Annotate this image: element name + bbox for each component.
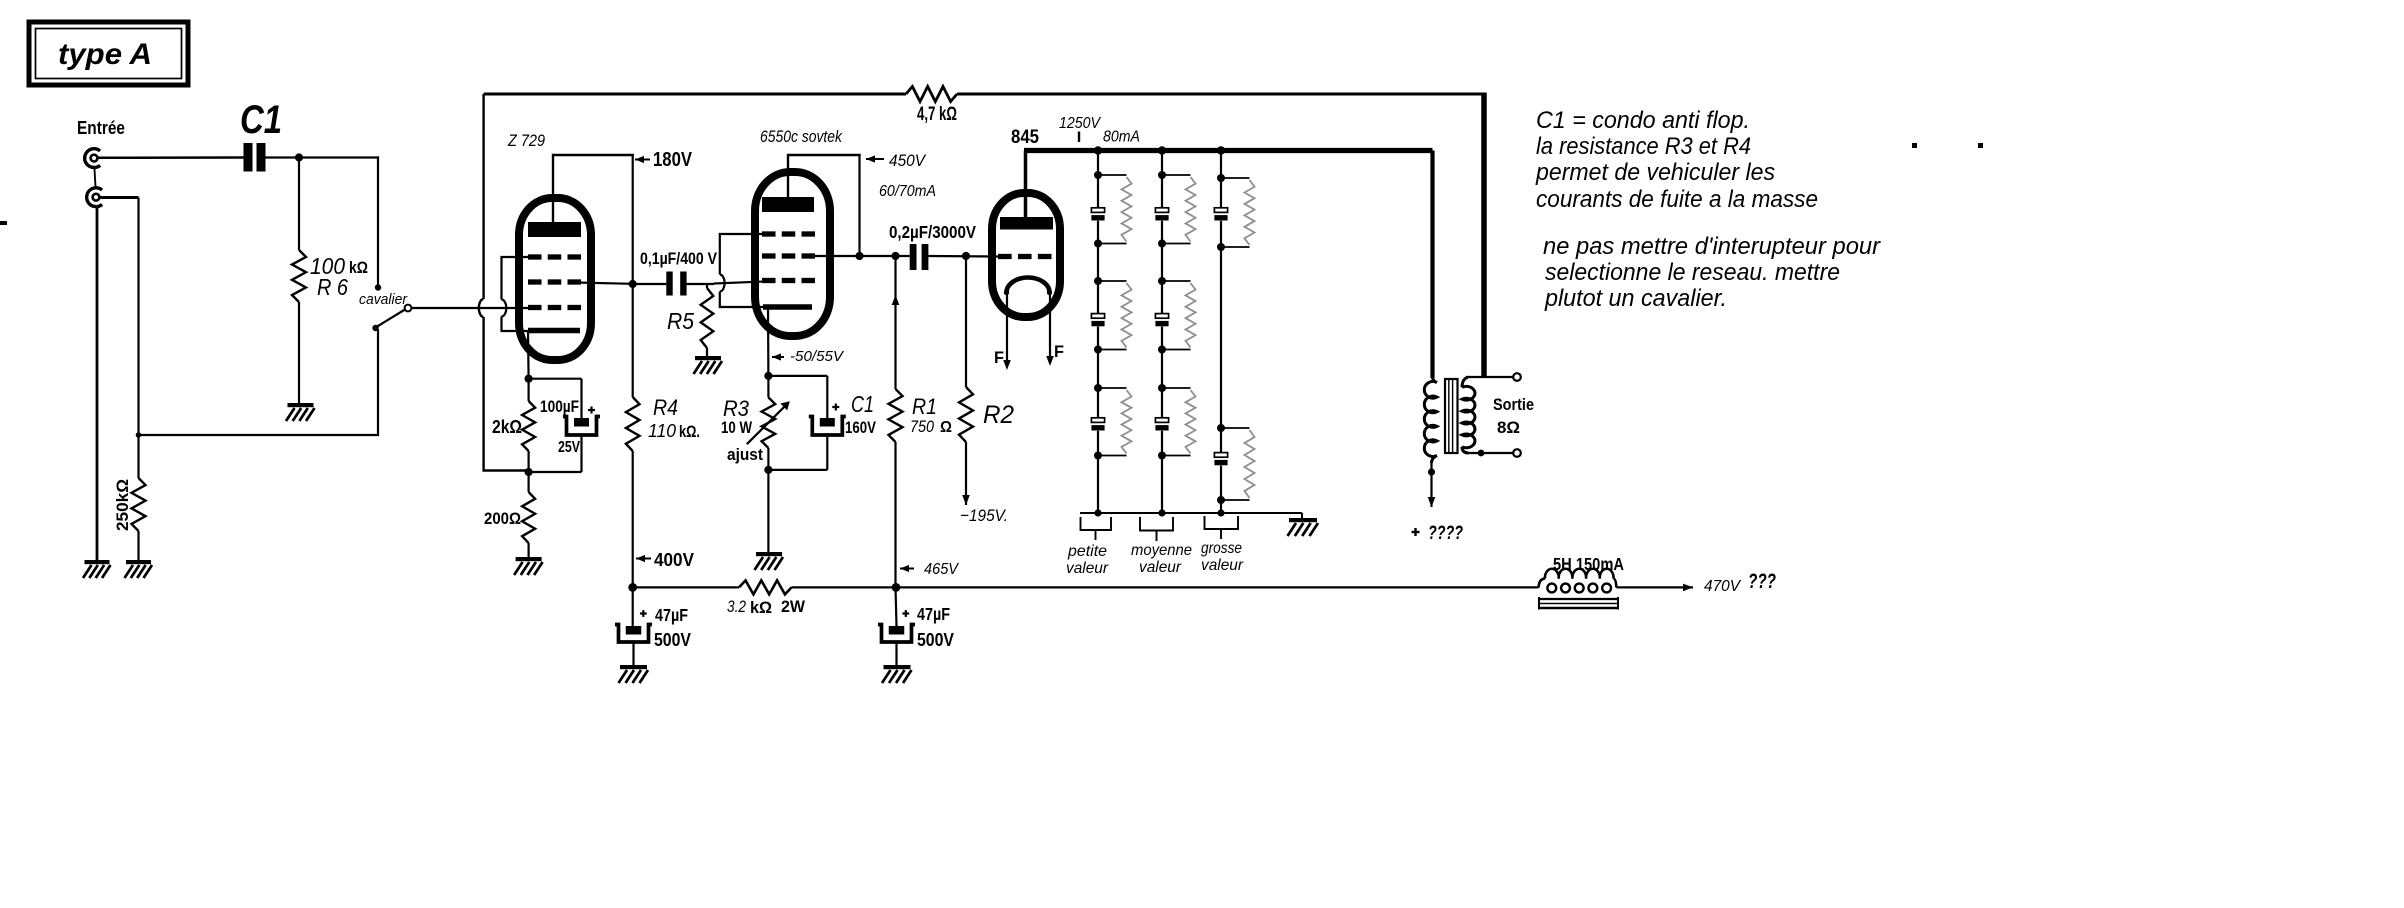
wire bank bottom bus	[1080, 512, 1302, 514]
label kOhm of R6	[349, 258, 368, 277]
wire 1250V rail drop to transformer	[1430, 151, 1434, 379]
resistor 200 Ohm	[522, 472, 535, 557]
node switch lower contact	[372, 325, 378, 331]
label 465V	[924, 561, 959, 578]
wire 100uF box top	[529, 378, 582, 380]
wire J1 to C1	[97, 156, 243, 159]
label Sortie	[1493, 395, 1534, 414]
svg-text:450V: 450V	[889, 151, 927, 170]
wire feedback top line right	[957, 93, 1486, 96]
svg-text:-50/55V: -50/55V	[790, 348, 845, 365]
label 500V no1	[654, 629, 692, 650]
label -50/55V	[790, 348, 845, 365]
wire V2 cathode down	[767, 309, 770, 376]
label ajust	[727, 445, 763, 464]
node bottom loop junction	[136, 432, 142, 438]
label 500V no2	[917, 629, 955, 650]
svg-text:C1: C1	[851, 391, 874, 417]
capacitor 47uF 500V no2	[878, 625, 915, 643]
label arrow 180V	[635, 156, 650, 163]
label plus of 100uF	[588, 407, 595, 414]
wire 47uF no1 to ground	[632, 642, 634, 665]
svg-text:Entrée: Entrée	[77, 118, 125, 138]
svg-text:500V: 500V	[654, 629, 692, 650]
V1 anode plate	[528, 222, 581, 237]
label 6550c sovtek	[760, 128, 843, 146]
label C1 cathode cap	[851, 391, 874, 417]
node bus col1	[1094, 509, 1101, 516]
label arrow 465V	[900, 565, 914, 572]
label petite valeur	[1066, 543, 1109, 577]
resistor 3.2k 2W	[739, 580, 792, 594]
switch pivot circle	[405, 305, 412, 312]
svg-text:Ω: Ω	[940, 419, 952, 436]
svg-text:moyenne: moyenne	[1131, 542, 1192, 559]
wire 100uF box right lower	[580, 435, 582, 472]
resistor 2k cathode	[522, 379, 535, 472]
capacitor C1 160V	[809, 417, 846, 436]
label ???? supply	[1428, 523, 1463, 544]
wire V1 anode up and right	[553, 155, 634, 223]
wire V3 anode up	[1024, 151, 1028, 219]
wire R3 to ground	[767, 470, 769, 552]
label 60/70mA	[879, 183, 936, 200]
tube V1 Z729 envelope	[519, 198, 591, 360]
label Ohm of R1	[940, 419, 952, 436]
label 1250V	[1059, 115, 1101, 132]
wire feedback rail left	[479, 94, 529, 471]
label 400V	[654, 550, 694, 570]
node bus col2	[1158, 509, 1165, 516]
wire output node to 0.1uF	[633, 283, 667, 285]
inductor 5H choke	[1539, 569, 1617, 593]
wire R6 to ground	[298, 302, 300, 403]
tube V3 845 envelope	[992, 193, 1060, 317]
capacitor bank col1 (3 RC cells)	[1091, 151, 1131, 514]
svg-text:valeur: valeur	[1139, 559, 1182, 576]
wire 100uF box bottom	[529, 471, 582, 473]
wire R3 box bottom	[768, 469, 827, 471]
label cavalier	[359, 291, 408, 308]
bracket grosse valeur	[1205, 516, 1239, 539]
label 8 Ohm	[1497, 418, 1520, 437]
label 160V	[845, 418, 877, 437]
label plus of 47uF no2	[902, 610, 909, 617]
wire V2 screen to 0.2uF	[815, 255, 910, 257]
wire 100uF box right upper	[580, 379, 582, 418]
label arrow -50/55V	[772, 353, 784, 360]
V1 g3-cathode strap	[502, 257, 531, 331]
terminal sortie plus	[1513, 373, 1521, 381]
transformer core	[1445, 379, 1458, 453]
resistor 250k	[132, 478, 146, 531]
wire corner down to switch	[377, 156, 379, 288]
label R 6	[317, 274, 348, 300]
label R5	[667, 308, 694, 334]
node rail col3	[1217, 146, 1225, 154]
V2 grid g2 row	[762, 253, 815, 258]
resistor R1 750	[889, 256, 903, 587]
terminal sortie minus	[1513, 449, 1521, 457]
handwritten note block	[1535, 107, 1881, 312]
V3 anode plate	[1000, 217, 1053, 230]
tube V2 6550 envelope	[755, 172, 830, 336]
label 100	[310, 253, 345, 279]
wire secondary top to terminal	[1466, 376, 1513, 378]
bracket moyenne valeur	[1140, 517, 1173, 541]
svg-text:plutot un cavalier.: plutot un cavalier.	[1544, 285, 1727, 312]
svg-text:60/70mA: 60/70mA	[879, 183, 936, 200]
resistor R3 rheostat	[762, 376, 776, 470]
ground under R3	[755, 552, 784, 570]
wire feedback top line left	[484, 93, 906, 96]
label 4,7 kOhm	[917, 104, 957, 125]
V3 filament node left	[1004, 290, 1009, 295]
label kOhm of R4	[679, 422, 700, 441]
title box frame	[29, 22, 188, 85]
node V1 cathode junction	[525, 375, 533, 383]
ground under 200 Ohm	[514, 557, 543, 575]
node C1/R6 junction	[295, 153, 303, 161]
node bus col3	[1217, 509, 1224, 516]
label Entree	[77, 118, 125, 138]
label Z 729	[507, 132, 545, 150]
svg-text:F: F	[994, 348, 1004, 367]
label 10W	[721, 418, 753, 437]
label R2	[983, 401, 1014, 429]
label 5H 150mA	[1553, 554, 1624, 574]
stray dash left edge	[0, 221, 7, 225]
label 250kOhm	[113, 479, 132, 531]
wire feedback drop to transformer	[1481, 93, 1487, 378]
label 200Ohm	[484, 509, 521, 528]
svg-text:110: 110	[648, 421, 676, 441]
capacitor bank col2 (3 RC cells)	[1155, 151, 1195, 514]
capacitor 0.1uF/400V	[666, 272, 686, 296]
R3 rheostat arrow	[747, 401, 790, 444]
label 845	[1011, 127, 1039, 148]
ground under R5	[694, 356, 723, 374]
wire switch to V1 grid	[411, 307, 478, 309]
capacitor 100uF 25V	[563, 417, 600, 436]
resistor R6 100k	[292, 250, 306, 302]
node primary bottom	[1428, 468, 1435, 475]
wire 250k to ground	[137, 531, 139, 560]
label plus of supply	[1412, 528, 1420, 536]
svg-text:selectionne le reseau. mettre: selectionne le reseau. mettre	[1545, 259, 1840, 286]
wire secondary bottom to terminal	[1468, 452, 1513, 454]
wire filament leg F left	[1003, 293, 1011, 371]
arrow 470V output	[1683, 584, 1693, 592]
node V1 cathode bottom junction	[525, 468, 533, 476]
V2 grid g1 row	[762, 278, 815, 283]
label 2kOhm	[492, 417, 522, 437]
node rail col1	[1094, 146, 1102, 154]
input jack J2	[87, 188, 102, 207]
wire junction down to R6	[298, 158, 300, 251]
svg-text:200Ω: 200Ω	[484, 509, 521, 528]
svg-text:Sortie: Sortie	[1493, 395, 1534, 414]
label grosse valeur	[1201, 540, 1244, 574]
wire R5 node to V2 grid row	[714, 282, 764, 284]
V3 grid row	[998, 254, 1052, 259]
label 470V	[1704, 578, 1741, 595]
svg-text:???: ???	[1748, 570, 1776, 593]
ground under 250k	[125, 560, 153, 578]
label arrow 450V	[866, 155, 884, 162]
svg-text:R1: R1	[912, 394, 937, 419]
svg-text:470V: 470V	[1704, 578, 1741, 595]
node V3 grid junction	[962, 252, 970, 260]
node R1 top junction	[891, 252, 899, 260]
resistor R2	[959, 256, 973, 498]
svg-text:160V: 160V	[845, 418, 877, 437]
choke core bars	[1539, 597, 1618, 610]
label C1 input cap	[240, 98, 282, 142]
wire C1 to corner	[266, 156, 380, 158]
label arrow 400V	[636, 555, 651, 562]
wire 250k branch vertical	[137, 198, 139, 479]
label 100uF	[540, 397, 579, 416]
ground under 47uF no2	[882, 665, 912, 683]
wire V2 anode up and right	[788, 155, 861, 198]
svg-text:845: 845	[1011, 127, 1039, 148]
wire J2 down to ground	[96, 207, 99, 561]
capacitor 47uF 500V no1	[615, 625, 652, 643]
label 25V	[558, 439, 580, 456]
wire filament leg F right	[1046, 293, 1054, 367]
label moyenne valeur	[1131, 542, 1192, 576]
stray dot 1	[1912, 143, 1917, 148]
arrow R2 to -195V	[962, 495, 970, 505]
wire 180V node down	[632, 155, 634, 397]
wire V1 g2 to output node	[575, 283, 633, 284]
svg-text:grosse: grosse	[1201, 540, 1242, 557]
title text type A	[58, 38, 152, 71]
wire 0.1uF to R5 node	[687, 283, 714, 285]
svg-text:R4: R4	[653, 395, 678, 420]
wire R4 down to 400V rail	[632, 451, 634, 587]
svg-text:0,1µF/400 V: 0,1µF/400 V	[640, 249, 718, 268]
label 3.2	[727, 597, 746, 616]
label 750	[910, 417, 934, 436]
svg-text:25V: 25V	[558, 439, 580, 456]
label kOhm 2W	[750, 597, 806, 617]
resistor R5	[701, 284, 714, 356]
svg-text:kΩ: kΩ	[750, 598, 772, 617]
V2 anode plate	[762, 197, 814, 212]
V1 grid g1 row	[528, 305, 581, 310]
svg-text:250kΩ: 250kΩ	[113, 479, 132, 531]
V3 filament arc	[1007, 278, 1050, 293]
node rail col2	[1158, 146, 1166, 154]
svg-text:kΩ.: kΩ.	[679, 422, 700, 441]
node switch upper contact	[375, 284, 381, 290]
label 450V	[889, 151, 927, 170]
wire switch to V1 grid row	[478, 307, 530, 309]
svg-text:750: 750	[910, 417, 934, 436]
svg-text:3.2: 3.2	[727, 597, 746, 616]
ground of bank bus	[1288, 518, 1319, 536]
label R1	[912, 394, 937, 419]
svg-text:465V: 465V	[924, 561, 959, 578]
svg-text:la resistance R3 et R4: la resistance R3 et R4	[1536, 133, 1751, 160]
label 180V	[653, 149, 693, 171]
node V1 output junction	[629, 280, 637, 288]
label ??? output	[1748, 570, 1776, 593]
wire J2 to 250k branch	[99, 196, 138, 199]
V2 cathode bar	[763, 304, 812, 310]
label F right	[1054, 342, 1064, 361]
label -195V	[960, 506, 1008, 525]
wire junction to 47uF no1	[632, 587, 634, 626]
svg-text:400V: 400V	[654, 550, 694, 570]
label plus of C1 160V	[832, 404, 839, 411]
svg-text:47µF: 47µF	[655, 605, 688, 625]
resistor R4 110k	[626, 397, 640, 451]
stray dot 2	[1978, 143, 1983, 148]
wire bottom return loop	[139, 329, 379, 435]
wire 400V rail right	[792, 586, 1539, 588]
V2 g3-cathode strap	[720, 234, 764, 307]
ground under R6	[286, 403, 315, 421]
svg-text:R5: R5	[667, 308, 694, 334]
svg-text:100µF: 100µF	[540, 397, 579, 416]
svg-text:47µF: 47µF	[917, 604, 950, 624]
V2 grid g3 row	[762, 231, 815, 236]
label 80mA	[1103, 129, 1140, 146]
transformer primary coil	[1424, 376, 1437, 463]
svg-text:80mA: 80mA	[1103, 129, 1140, 146]
label 110	[648, 421, 676, 441]
svg-text:ne pas mettre d'interupteur po: ne pas mettre d'interupteur pour	[1543, 233, 1881, 260]
wire bus to ground	[1301, 513, 1303, 519]
tick under 1250V	[1078, 132, 1080, 143]
svg-text:R2: R2	[983, 401, 1014, 429]
wire V1 cathode down	[527, 331, 530, 379]
svg-text:1250V: 1250V	[1059, 115, 1101, 132]
wire C1 box right upper	[826, 376, 828, 418]
V1 cathode bar	[528, 328, 580, 334]
svg-text:10 W: 10 W	[721, 418, 753, 437]
svg-text:4,7 kΩ: 4,7 kΩ	[917, 104, 957, 125]
wire 0.2uF to V3 grid node	[928, 255, 998, 258]
bracket petite valeur	[1081, 517, 1112, 540]
wire C1 box right lower	[826, 435, 828, 470]
svg-text:courants de fuite a la masse: courants de fuite a la masse	[1536, 186, 1818, 213]
switch blade cavalier	[376, 310, 406, 328]
svg-text:8Ω: 8Ω	[1497, 418, 1520, 437]
wire R3 box top	[768, 375, 827, 377]
svg-text:C1 = condo anti flop.: C1 = condo anti flop.	[1536, 107, 1750, 134]
V3 filament node right	[1047, 290, 1052, 295]
capacitor C1 input	[244, 143, 266, 172]
resistor 4.7k feedback	[906, 87, 957, 102]
ground under J2 line	[83, 560, 111, 578]
wire 47uF no2 to ground	[895, 642, 897, 665]
label F left	[994, 348, 1004, 367]
svg-text:2kΩ: 2kΩ	[492, 417, 522, 437]
svg-text:cavalier: cavalier	[359, 291, 408, 308]
wire 400V rail left	[633, 586, 739, 588]
wire 1250V thick rail	[1024, 148, 1433, 153]
svg-text:180V: 180V	[653, 149, 693, 171]
node 400V junction	[628, 583, 637, 592]
wire V2 anode tie down	[858, 155, 860, 256]
wire primary bottom down	[1430, 461, 1432, 497]
node secondary bottom	[1478, 450, 1485, 457]
svg-text:ajust: ajust	[727, 445, 763, 464]
node R3 bottom junction	[764, 466, 772, 474]
svg-text:Z 729: Z 729	[507, 132, 545, 150]
svg-text:permet de vehiculer les: permet de vehiculer les	[1535, 159, 1775, 186]
capacitor bank col3 (2 RC cells)	[1214, 151, 1254, 514]
wire junction to 47uF no2	[896, 587, 897, 626]
label 0,2uF/3000V	[889, 222, 976, 242]
label plus of 47uF no1	[640, 610, 647, 617]
capacitor 0.2uF/3000V	[910, 244, 929, 270]
svg-text:F: F	[1054, 342, 1064, 361]
label 47uF no1	[655, 605, 688, 625]
svg-text:500V: 500V	[917, 629, 955, 650]
label R4	[653, 395, 678, 420]
svg-text:2W: 2W	[781, 597, 806, 616]
node V2 cathode junction	[764, 372, 772, 380]
arrow primary to supply	[1428, 497, 1436, 507]
svg-text:0,2µF/3000V: 0,2µF/3000V	[889, 222, 976, 242]
node V2 anode/screen tie	[855, 252, 863, 260]
label 0,1uF/400V	[640, 249, 718, 268]
svg-text:petite: petite	[1067, 543, 1107, 560]
input jack J1	[85, 149, 100, 168]
svg-text:valeur: valeur	[1201, 557, 1244, 574]
node 465V junction	[892, 583, 901, 592]
svg-text:−195V.: −195V.	[960, 506, 1008, 525]
svg-text:valeur: valeur	[1066, 560, 1109, 577]
wire choke to output arrow	[1616, 586, 1686, 588]
svg-text:6550c sovtek: 6550c sovtek	[760, 128, 843, 146]
ground under 47uF no1	[619, 665, 649, 683]
svg-text:C1: C1	[240, 98, 282, 142]
svg-text:????: ????	[1428, 523, 1463, 544]
svg-text:type A: type A	[58, 38, 152, 71]
V1 grid g2 row	[528, 279, 581, 284]
svg-text:kΩ: kΩ	[349, 258, 368, 277]
svg-text:R 6: R 6	[317, 274, 348, 300]
label R3	[723, 396, 750, 421]
transformer secondary coil	[1462, 377, 1475, 453]
label 47uF no2	[917, 604, 950, 624]
V1 grid g3 row	[528, 254, 581, 259]
wire J1 to J2 link	[94, 168, 95, 189]
